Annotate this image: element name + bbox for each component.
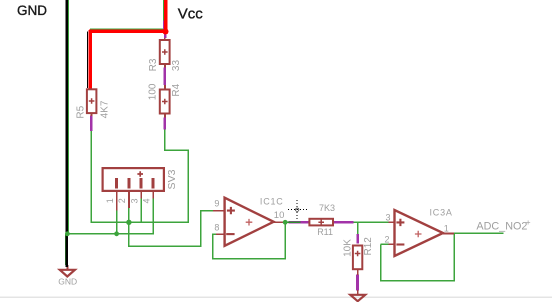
svg-text:GND: GND bbox=[58, 276, 77, 286]
svg-text:7K3: 7K3 bbox=[319, 203, 335, 213]
svg-text:R12: R12 bbox=[363, 237, 374, 256]
svg-text:3: 3 bbox=[130, 198, 140, 203]
svg-text:ADC_NO2: ADC_NO2 bbox=[476, 220, 527, 232]
svg-text:1: 1 bbox=[444, 224, 449, 234]
svg-text:10: 10 bbox=[274, 210, 285, 221]
svg-text:9: 9 bbox=[214, 199, 219, 209]
svg-text:R3: R3 bbox=[148, 58, 159, 71]
svg-text:4K7: 4K7 bbox=[99, 100, 110, 118]
svg-text:SV3: SV3 bbox=[166, 169, 178, 189]
svg-text:R5: R5 bbox=[76, 105, 87, 118]
svg-text:2: 2 bbox=[384, 234, 389, 244]
svg-text:GND: GND bbox=[17, 3, 47, 18]
svg-text:+: + bbox=[526, 217, 531, 227]
svg-text:1: 1 bbox=[105, 198, 115, 203]
svg-text:4: 4 bbox=[142, 198, 152, 203]
svg-text:10K: 10K bbox=[342, 239, 353, 257]
svg-text:2: 2 bbox=[117, 198, 127, 203]
svg-text:3: 3 bbox=[385, 212, 390, 222]
svg-text:IC3A: IC3A bbox=[430, 207, 453, 217]
svg-text:100: 100 bbox=[147, 83, 158, 100]
svg-text:8: 8 bbox=[214, 222, 219, 232]
svg-text:IC1C: IC1C bbox=[260, 197, 284, 207]
svg-text:R11: R11 bbox=[317, 227, 333, 237]
svg-text:33: 33 bbox=[171, 60, 182, 72]
svg-text:Vcc: Vcc bbox=[178, 5, 204, 22]
svg-text:R4: R4 bbox=[171, 83, 182, 96]
